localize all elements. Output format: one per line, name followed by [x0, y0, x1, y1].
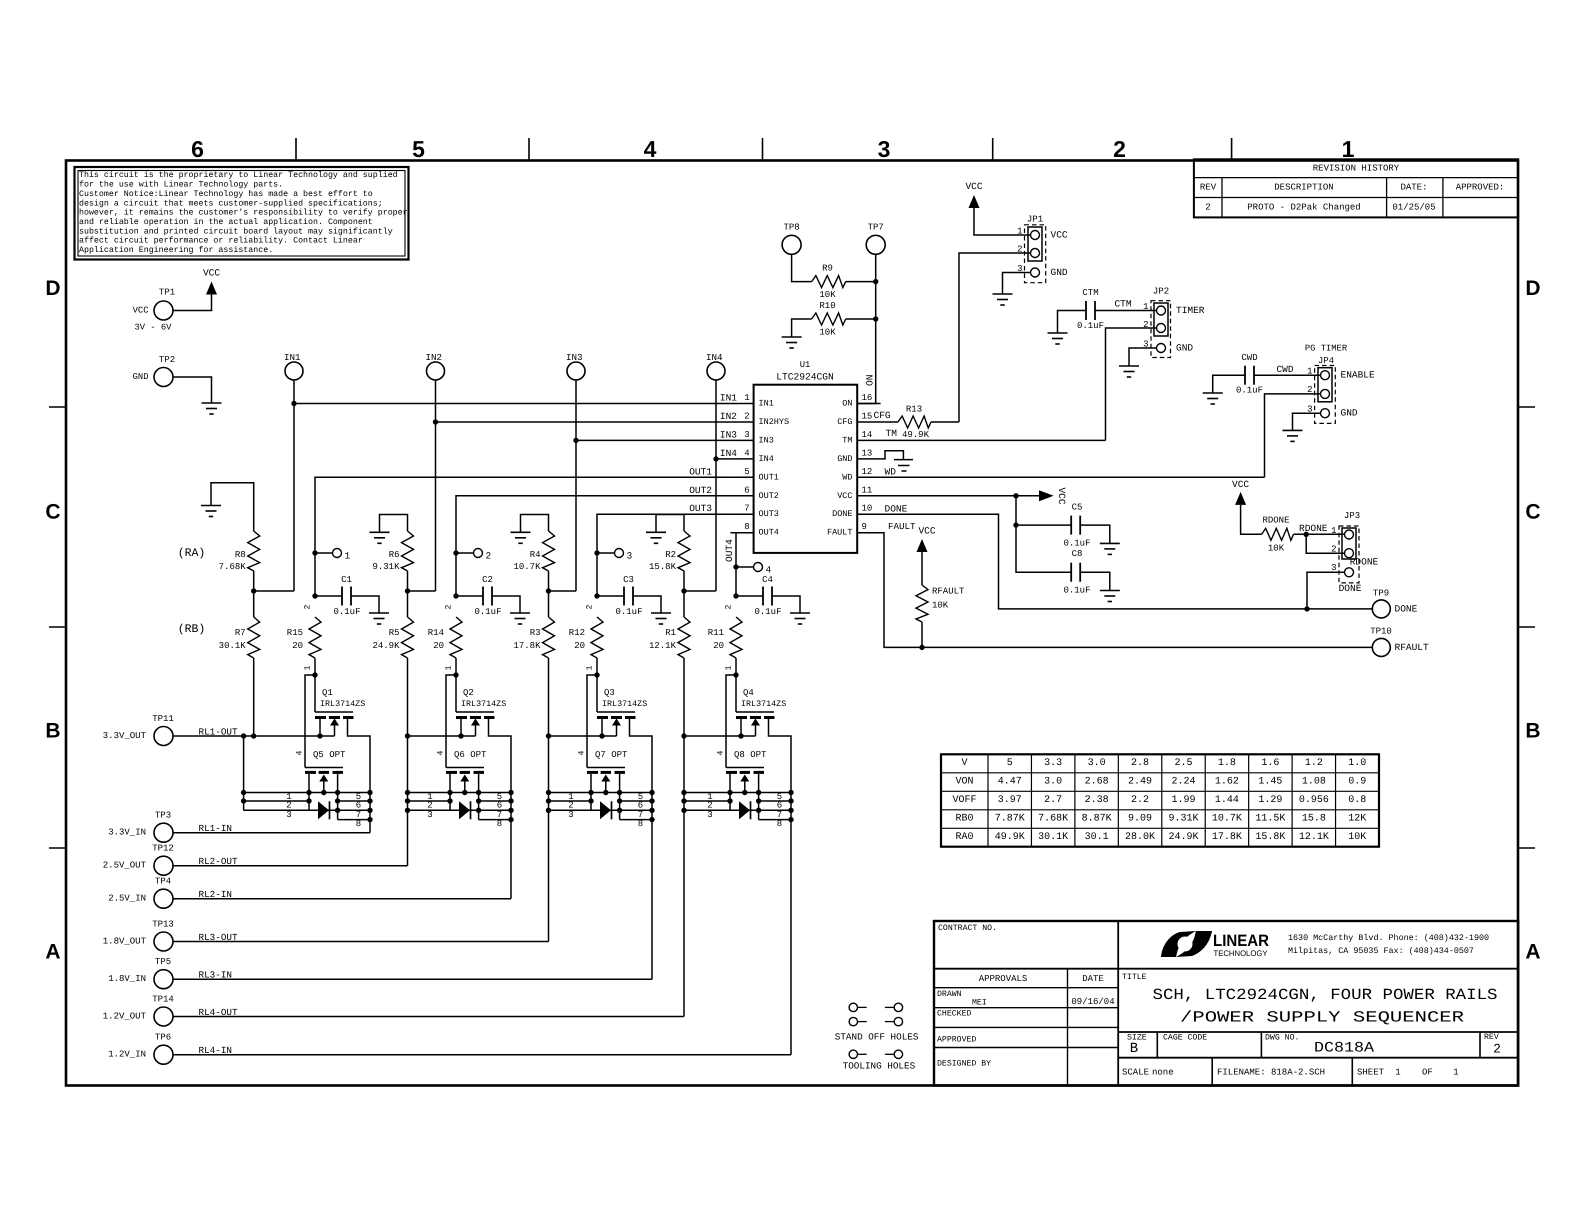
svg-text:30.1: 30.1	[1085, 832, 1109, 843]
svg-text:A: A	[45, 941, 60, 964]
wire WD pin 12	[881, 476, 1265, 478]
wire JP2 pin 2 to TM	[1106, 328, 1157, 440]
svg-text:IN4: IN4	[706, 352, 723, 363]
svg-text:Q1: Q1	[322, 688, 333, 698]
svg-text:GND: GND	[133, 372, 149, 382]
svg-text:DWG NO.: DWG NO.	[1265, 1034, 1299, 1043]
svg-text:1.45: 1.45	[1258, 777, 1282, 788]
wire OUT3 column	[597, 514, 731, 596]
wire R2 top to ground	[656, 515, 684, 533]
test point TP4 (2.5V_IN)	[108, 877, 173, 909]
svg-text:RL3-OUT: RL3-OUT	[199, 932, 238, 943]
wire R4 top to ground	[521, 515, 549, 533]
svg-text:RL2-OUT: RL2-OUT	[199, 856, 238, 867]
svg-text:2: 2	[744, 412, 749, 422]
wire OUT4 column	[731, 533, 736, 596]
svg-text:REV: REV	[1200, 183, 1217, 193]
svg-text:OF: OF	[1422, 1068, 1433, 1078]
svg-text:10K: 10K	[819, 290, 836, 300]
junction gate ch1	[312, 672, 317, 677]
resistor R7 30.1K	[219, 617, 260, 658]
wire JP1 pin 3 to ground	[1003, 273, 1031, 295]
svg-text:IN2: IN2	[426, 352, 443, 363]
resistor R13 49.9K	[898, 405, 931, 441]
svg-text:TM: TM	[842, 435, 852, 445]
resistor R9 10K	[812, 264, 846, 301]
svg-text:TP11: TP11	[152, 714, 174, 724]
svg-text:1: 1	[744, 393, 749, 403]
svg-text:8: 8	[497, 819, 502, 829]
wire RL4-IN	[173, 1054, 791, 1056]
test point TP8	[782, 223, 801, 255]
net label WD	[885, 467, 897, 478]
net label RL4-OUT	[199, 1007, 238, 1018]
svg-text:1.6: 1.6	[1261, 758, 1279, 769]
pin 14 stub	[857, 430, 880, 441]
svg-text:Q7 OPT: Q7 OPT	[595, 750, 628, 760]
power symbol VCC (RDONE)	[1232, 479, 1249, 505]
svg-text:2.7: 2.7	[1044, 795, 1062, 806]
power symbol VCC (TP1)	[203, 268, 220, 295]
transistor Q6 OPT	[437, 750, 488, 820]
svg-text:RL4-OUT: RL4-OUT	[199, 1007, 238, 1018]
transistor Q4 IRL3714ZS	[736, 675, 791, 1055]
svg-text:0.1uF: 0.1uF	[754, 607, 781, 617]
svg-text:2.24: 2.24	[1171, 777, 1195, 788]
svg-text:3.3: 3.3	[1044, 758, 1062, 769]
svg-text:10K: 10K	[932, 601, 949, 611]
svg-text:0.956: 0.956	[1299, 795, 1329, 806]
svg-text:3.97: 3.97	[998, 795, 1022, 806]
svg-text:RFAULT: RFAULT	[932, 587, 965, 597]
svg-text:STAND OFF HOLES: STAND OFF HOLES	[835, 1032, 919, 1043]
wire C3 to ground	[633, 596, 661, 613]
wire R10 left to ground	[792, 319, 812, 337]
svg-text:TECHNOLOGY: TECHNOLOGY	[1214, 949, 1269, 958]
wire gate to Q8	[726, 675, 736, 768]
junction divider ch3	[546, 588, 551, 593]
wire TM pin 14	[881, 439, 1106, 441]
svg-text:CFG: CFG	[874, 410, 891, 421]
svg-text:JP1: JP1	[1027, 215, 1043, 225]
svg-text:4: 4	[717, 750, 726, 755]
svg-text:1.08: 1.08	[1302, 777, 1326, 788]
net label RL2-OUT	[199, 856, 238, 867]
svg-text:30.1K: 30.1K	[219, 641, 247, 651]
net label OUT2	[689, 485, 712, 496]
label 3V - 6V	[135, 323, 173, 333]
test point TP6 (1.2V_IN)	[108, 1033, 173, 1065]
net label RL2-IN	[199, 889, 232, 900]
svg-text:1: 1	[445, 665, 454, 670]
svg-text:DESIGNED BY: DESIGNED BY	[937, 1060, 991, 1069]
svg-text:R4: R4	[530, 550, 541, 560]
svg-text:10K: 10K	[1268, 544, 1285, 554]
pin 7 stub	[731, 504, 754, 515]
svg-text:OUT1: OUT1	[689, 466, 712, 477]
wire Q6 source pins 1-3	[408, 793, 512, 811]
wire IN1 vertical	[293, 380, 295, 591]
svg-text:0.1uF: 0.1uF	[1236, 386, 1263, 396]
svg-text:16: 16	[862, 393, 873, 403]
wire RDONE to JP3 pin 1	[1294, 533, 1345, 535]
svg-text:0.1uF: 0.1uF	[615, 607, 642, 617]
resistor R10 10K	[812, 301, 846, 338]
svg-text:12K: 12K	[1348, 814, 1366, 825]
svg-text:IN2: IN2	[720, 411, 737, 422]
junction gate ch2	[453, 672, 458, 677]
svg-text:TP6: TP6	[155, 1033, 171, 1043]
svg-text:Q5 OPT: Q5 OPT	[313, 750, 346, 760]
svg-text:RDONE: RDONE	[1262, 516, 1289, 526]
ground (JP4 pin 3)	[1283, 430, 1303, 441]
svg-text:Milpitas, CA 95035 Fax: (408: Milpitas, CA 95035 Fax: (408)434-0507	[1288, 946, 1474, 956]
test point TP12 (2.5V_OUT)	[103, 844, 174, 876]
svg-text:CONTRACT NO.: CONTRACT NO.	[938, 924, 997, 933]
svg-text:R1: R1	[665, 628, 676, 638]
capacitor C4 0.1uF	[736, 575, 782, 617]
svg-text:2.68: 2.68	[1085, 777, 1109, 788]
svg-text:B: B	[1525, 720, 1540, 743]
svg-text:1.0: 1.0	[1348, 758, 1366, 769]
svg-text:OUT2: OUT2	[689, 485, 712, 496]
svg-text:TP1: TP1	[159, 288, 175, 298]
pin 10 stub	[857, 504, 880, 515]
svg-text:1: 1	[1143, 302, 1148, 312]
svg-text:14: 14	[862, 430, 873, 440]
transistor Q3 IRL3714ZS	[597, 675, 652, 979]
wire JP4 pin 3 to ground	[1293, 413, 1321, 430]
net label RL4-IN	[199, 1045, 232, 1056]
svg-text:8: 8	[356, 819, 361, 829]
junction IN3/pin3	[573, 438, 578, 443]
svg-text:OUT3: OUT3	[689, 503, 712, 514]
junction Q1 source	[317, 733, 322, 738]
svg-text:1.62: 1.62	[1215, 777, 1239, 788]
wire OUT rail ch2	[408, 735, 476, 737]
svg-text:PROTO - D2Pak Changed: PROTO - D2Pak Changed	[1247, 203, 1360, 213]
svg-text:DESCRIPTION: DESCRIPTION	[1274, 183, 1333, 193]
svg-text:8: 8	[744, 522, 749, 532]
wire C5 to ground	[1080, 525, 1110, 543]
diode Q8 (body)	[739, 801, 751, 819]
svg-text:A: A	[1525, 941, 1540, 964]
svg-text:12.1K: 12.1K	[649, 641, 677, 651]
wire IN2 vertical	[435, 380, 437, 591]
junction Q3 source	[599, 733, 604, 738]
svg-text:49.9K: 49.9K	[902, 430, 930, 440]
svg-text:1.8V_OUT: 1.8V_OUT	[103, 937, 147, 947]
svg-text:1.2: 1.2	[1305, 758, 1323, 769]
jumper JP3	[1331, 511, 1378, 594]
svg-text:Q6 OPT: Q6 OPT	[454, 750, 487, 760]
svg-text:3: 3	[427, 810, 432, 820]
wire Q5 drain pins 5-8	[338, 801, 370, 820]
svg-text:JP4: JP4	[1318, 356, 1334, 366]
svg-text:3: 3	[568, 810, 573, 820]
svg-text:12: 12	[862, 467, 873, 477]
svg-text:2: 2	[1205, 203, 1210, 213]
pin 11 stub	[857, 485, 880, 496]
svg-text:3.0: 3.0	[1044, 777, 1062, 788]
svg-text:1.44: 1.44	[1215, 795, 1239, 806]
svg-text:2.8: 2.8	[1131, 758, 1149, 769]
svg-text:VCC: VCC	[1056, 487, 1067, 504]
svg-text:RA0: RA0	[955, 832, 973, 843]
ground (CWD)	[1203, 393, 1223, 404]
svg-text:VCC: VCC	[1232, 479, 1249, 490]
wire IN4 vertical	[715, 380, 717, 591]
svg-text:C3: C3	[623, 575, 634, 585]
svg-text:VOFF: VOFF	[952, 795, 976, 806]
net label DONE (pin 10)	[885, 504, 908, 515]
IC U1 LTC2924CGN power supply sequencer	[754, 360, 858, 553]
svg-text:DATE: DATE	[1082, 974, 1104, 984]
junction R10/ON	[873, 316, 878, 321]
svg-text:IN3: IN3	[566, 352, 583, 363]
resistor R12 20	[569, 604, 603, 670]
svg-text:15.8K: 15.8K	[649, 562, 677, 572]
svg-text:IRL3714ZS: IRL3714ZS	[320, 699, 365, 709]
notice text block	[75, 167, 409, 260]
svg-text:6: 6	[191, 136, 204, 162]
junction C3	[594, 593, 599, 598]
junction C1	[312, 593, 317, 598]
svg-text:IN1: IN1	[720, 393, 737, 404]
svg-text:U1: U1	[800, 360, 811, 370]
ground (CTM)	[1048, 333, 1068, 344]
svg-text:R5: R5	[389, 628, 400, 638]
svg-text:1.2V_IN: 1.2V_IN	[108, 1050, 146, 1060]
net label IN3	[720, 429, 737, 440]
svg-text:design a circuit that meets cu: design a circuit that meets customer-sup…	[79, 198, 383, 208]
wire FAULT pin 9 to TP10	[857, 533, 1372, 648]
junction node 2	[453, 550, 458, 555]
wire Q6 drain pins 5-8	[479, 801, 511, 820]
wire IN1 to U1 pin 1	[294, 403, 731, 405]
pin labels 5 6 7 8 (Q5)	[356, 792, 361, 829]
svg-text:RL1-OUT: RL1-OUT	[199, 726, 238, 737]
svg-text:TP12: TP12	[152, 844, 174, 854]
svg-text:24.9K: 24.9K	[372, 641, 400, 651]
svg-text:SCH, LTC2924CGN, FOUR POWER RA: SCH, LTC2924CGN, FOUR POWER RAILS	[1153, 986, 1498, 1004]
ground (JP1 pin 3)	[993, 294, 1013, 305]
svg-text:Customer Notice:Linear Technol: Customer Notice:Linear Technology has ma…	[79, 189, 373, 199]
pin labels 5 6 7 8 (Q7)	[638, 792, 643, 829]
pin 15 stub	[857, 412, 880, 423]
wire pin 13 to ground	[881, 451, 904, 460]
svg-text:10.7K: 10.7K	[513, 562, 541, 572]
svg-text:IRL3714ZS: IRL3714ZS	[602, 699, 647, 709]
wire RL1-IN	[173, 832, 370, 834]
junction C4	[733, 593, 738, 598]
svg-text:10.7K: 10.7K	[1212, 814, 1242, 825]
svg-text:2: 2	[1113, 136, 1126, 162]
ground (JP2 pin 3)	[1119, 366, 1139, 377]
svg-text:R13: R13	[906, 405, 922, 415]
svg-text:VON: VON	[955, 777, 973, 788]
wire VCC to JP1 pin 1	[974, 208, 1031, 235]
transistor Q8 OPT	[717, 750, 768, 820]
wire gate to Q5	[305, 675, 315, 768]
junctions ch2 block	[405, 733, 514, 822]
svg-text:1: 1	[304, 665, 313, 670]
wire gate to Q7	[587, 675, 597, 768]
svg-text:IN3: IN3	[759, 435, 774, 445]
net label CTM	[1114, 299, 1131, 310]
wire Q8 drain pins 5-8	[759, 801, 791, 820]
svg-text:DRAWN: DRAWN	[937, 990, 962, 999]
svg-text:WD: WD	[885, 467, 897, 478]
ground (C8)	[1100, 591, 1120, 602]
net label CFG	[874, 410, 891, 421]
wire JP2 pin 3 to ground	[1129, 348, 1157, 366]
pin 12 stub	[857, 467, 880, 478]
svg-text:1.2V_OUT: 1.2V_OUT	[103, 1012, 147, 1022]
capacitor C1 0.1uF	[315, 575, 361, 617]
wire C2 to ground	[492, 596, 520, 613]
svg-text:1: 1	[1453, 1068, 1458, 1078]
svg-text:substitution and printed circu: substitution and printed circuit board l…	[79, 226, 393, 236]
svg-text:TP2: TP2	[159, 355, 175, 365]
svg-text:APPROVED: APPROVED	[937, 1036, 976, 1045]
svg-text:4: 4	[437, 750, 446, 755]
junctions ch3 block	[546, 733, 655, 822]
svg-text:GND: GND	[1176, 343, 1193, 354]
wire R11 to gates	[735, 658, 737, 675]
svg-text:3V - 6V: 3V - 6V	[135, 323, 173, 333]
ground (R6)	[370, 532, 390, 543]
svg-text:B: B	[1130, 1041, 1138, 1057]
net label TM	[886, 428, 898, 439]
svg-text:(RB): (RB)	[178, 623, 206, 636]
wire R10 to ON net	[846, 318, 876, 320]
transistor Q1 IRL3714ZS	[315, 675, 370, 833]
ground (pin 13)	[894, 460, 913, 471]
svg-text:GND: GND	[1341, 408, 1358, 419]
svg-text:20: 20	[713, 641, 724, 651]
svg-text:TP7: TP7	[868, 223, 884, 233]
resistor R4 10.7K	[513, 531, 554, 572]
svg-text:TM: TM	[886, 428, 898, 439]
svg-text:3: 3	[707, 810, 712, 820]
diode Q5 (body)	[318, 801, 330, 819]
svg-text:TP8: TP8	[783, 223, 799, 233]
svg-text:9.09: 9.09	[1128, 814, 1152, 825]
svg-text:C: C	[1525, 501, 1540, 524]
svg-text:C8: C8	[1072, 549, 1083, 559]
ground (R4)	[511, 532, 531, 543]
jumper JP1	[1017, 215, 1068, 283]
wire CTM to JP2 pin 1	[1095, 310, 1157, 312]
svg-text:VCC: VCC	[203, 268, 220, 279]
junction gate ch3	[594, 672, 599, 677]
transistor Q7 OPT	[578, 750, 629, 820]
svg-text:SCALE: SCALE	[1122, 1068, 1149, 1078]
svg-text:R2: R2	[665, 550, 676, 560]
svg-text:WD: WD	[842, 472, 852, 482]
wire C4 to ground	[772, 596, 800, 613]
svg-text:20: 20	[433, 641, 444, 651]
svg-text:0.9: 0.9	[1348, 777, 1366, 788]
svg-text:ON: ON	[865, 375, 876, 386]
svg-text:1: 1	[1395, 1068, 1400, 1078]
svg-text:OUT1: OUT1	[759, 472, 779, 482]
svg-text:1.29: 1.29	[1258, 795, 1282, 806]
svg-text:3.0: 3.0	[1088, 758, 1106, 769]
svg-text:R15: R15	[287, 628, 303, 638]
test point IN3	[566, 352, 585, 380]
svg-text:01/25/05: 01/25/05	[1392, 203, 1435, 213]
svg-text:CAGE CODE: CAGE CODE	[1163, 1034, 1207, 1043]
pin 1 stub	[731, 393, 754, 404]
svg-text:D: D	[45, 277, 60, 300]
svg-text:20: 20	[292, 641, 303, 651]
svg-text:DONE: DONE	[1339, 583, 1362, 594]
svg-text:09/16/04: 09/16/04	[1071, 997, 1114, 1007]
svg-text:7.68K: 7.68K	[1038, 814, 1068, 825]
jumper JP4 (PG TIMER)	[1305, 344, 1375, 424]
wire CWD to JP4 pin 1	[1254, 374, 1321, 376]
svg-text:2.5: 2.5	[1174, 758, 1192, 769]
test point TP5 (1.8V_IN)	[108, 957, 173, 989]
test point TP3 (3.3V_IN)	[108, 811, 173, 843]
svg-text:7.68K: 7.68K	[219, 562, 247, 572]
svg-text:1: 1	[725, 665, 734, 670]
net label IN2	[720, 411, 737, 422]
svg-text:CFG: CFG	[837, 417, 852, 427]
test point IN1	[284, 352, 303, 380]
svg-text:however, it remains the custom: however, it remains the customer's respo…	[79, 208, 408, 218]
wire OUT1 column	[315, 477, 731, 596]
wire R3 to OUT rail	[173, 658, 549, 942]
svg-text:3: 3	[878, 136, 891, 162]
power symbol VCC (RFAULT)	[917, 526, 936, 553]
svg-text:2.49: 2.49	[1128, 777, 1152, 788]
transistor Q5 OPT	[296, 750, 347, 820]
pin 2 stub	[731, 412, 754, 423]
svg-text:IN1: IN1	[759, 399, 774, 409]
test point TP9 (DONE)	[1372, 589, 1417, 618]
wire VCC to RDONE	[1241, 505, 1262, 534]
capacitor CTM 0.1uF	[1077, 288, 1104, 331]
junction divider ch4	[681, 588, 686, 593]
test point IN2	[426, 352, 445, 380]
svg-text:DONE: DONE	[832, 509, 852, 519]
svg-text:This circuit is the proprietar: This circuit is the proprietary to Linea…	[79, 170, 398, 180]
svg-text:2: 2	[304, 604, 313, 609]
svg-text:LTC2924CGN: LTC2924CGN	[776, 372, 834, 383]
junction Q4 source	[738, 733, 743, 738]
wire R6 top to ground	[380, 515, 408, 533]
svg-text:11: 11	[862, 485, 873, 495]
svg-text:APPROVALS: APPROVALS	[979, 974, 1028, 984]
svg-text:2: 2	[725, 604, 734, 609]
svg-text:4: 4	[296, 750, 305, 755]
test point TP7	[866, 223, 885, 255]
svg-text:OUT2: OUT2	[759, 491, 779, 501]
svg-text:OUT4: OUT4	[724, 539, 735, 562]
svg-text:12.1K: 12.1K	[1299, 832, 1329, 843]
svg-text:1: 1	[1307, 367, 1312, 377]
svg-text:IN2HYS: IN2HYS	[759, 417, 790, 427]
svg-text:VCC: VCC	[918, 526, 935, 537]
test point IN4	[706, 352, 725, 380]
net label CWD	[1276, 364, 1293, 375]
wire R7 to OUT rail	[253, 658, 255, 736]
svg-text:IN3: IN3	[720, 429, 737, 440]
wire Q5 source pins 1-3	[244, 736, 370, 810]
